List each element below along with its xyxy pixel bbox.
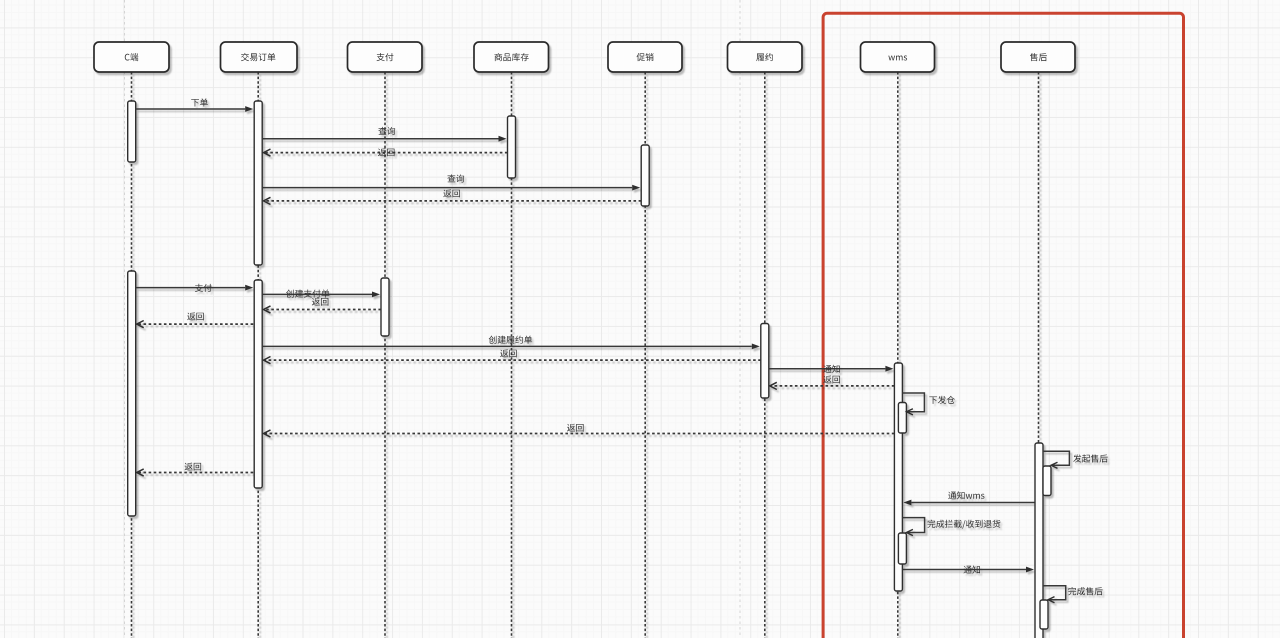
lifeline wms [897, 72, 899, 638]
lifeline 支付 [384, 72, 386, 638]
lifeline 促销 [644, 72, 646, 638]
交易订单 activation 1 [254, 101, 262, 265]
participant header 支付 [348, 42, 423, 72]
支付 activation [381, 278, 389, 336]
message 返回 from 支付 [264, 298, 382, 313]
participant header 商品库存 [474, 42, 549, 72]
message 通知 to 售后 [902, 566, 1034, 574]
message 返回 from 履约 [264, 349, 761, 363]
red highlight container around wms and aftersale columns [823, 13, 1183, 638]
C端 activation 2 [128, 271, 136, 516]
lifeline 售后 [1038, 72, 1040, 638]
交易订单 activation 2 [254, 280, 262, 488]
message 返回 to C端 1 [137, 312, 254, 327]
message 查询 to 商品库存 [262, 127, 506, 142]
message 返回 from 商品库存 [264, 148, 508, 156]
self message 下发仓 [902, 393, 955, 415]
self message 完成售后 [1043, 586, 1103, 603]
message 创建履约单 [262, 336, 760, 350]
C端 activation 1 [128, 101, 136, 162]
售后 nested activation 发起售后 [1043, 466, 1051, 496]
促销 activation [641, 145, 649, 206]
lifeline 商品库存 [511, 72, 513, 638]
participant header 售后 [1001, 42, 1075, 72]
participant header 交易订单 [221, 42, 298, 72]
message 返回 long from wms [264, 424, 895, 437]
message 返回 to C端 2 [137, 463, 254, 477]
商品库存 activation [508, 116, 516, 178]
lifeline 交易订单 [257, 72, 259, 638]
message 返回 from wms to 履约 [770, 376, 895, 390]
售后 activation main [1035, 443, 1043, 638]
message 下单 [136, 98, 254, 112]
message 支付 [136, 284, 254, 292]
lifeline 履约 [764, 72, 766, 638]
message 通知wms [903, 491, 1034, 505]
participant header wms [861, 42, 935, 72]
wms activation main [894, 363, 902, 591]
lifeline C端 [131, 72, 133, 638]
wms nested activation 下发仓 [898, 403, 906, 434]
message 查询 to 促销 [262, 174, 640, 190]
page boundary line left [124, 0, 126, 638]
participant header 履约 [728, 42, 803, 72]
售后 nested activation 完成售后 [1040, 600, 1048, 629]
participant header C端 [94, 42, 169, 72]
message 返回 from 促销 [264, 189, 642, 204]
self message 完成拦截/收到退货 [902, 518, 1000, 536]
履约 activation [761, 324, 769, 399]
message 创建支付单 [262, 290, 380, 298]
self message 发起售后 [1043, 451, 1108, 468]
wms nested activation 完成拦截 [898, 533, 906, 564]
page boundary line right [739, 0, 741, 638]
message 通知 to wms [769, 365, 894, 373]
participant header 促销 [608, 42, 682, 72]
